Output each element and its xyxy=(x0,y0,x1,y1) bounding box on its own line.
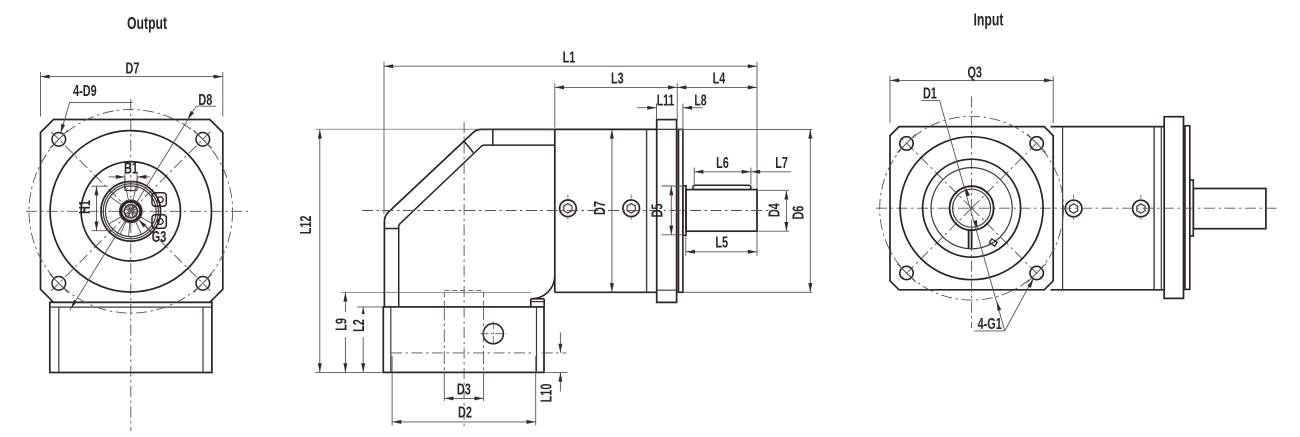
svg-text:D1: D1 xyxy=(923,85,937,103)
svg-text:D6: D6 xyxy=(789,205,807,219)
svg-text:D8: D8 xyxy=(198,91,212,109)
svg-text:D4: D4 xyxy=(765,203,783,217)
svg-text:L9: L9 xyxy=(332,318,350,331)
svg-text:D2: D2 xyxy=(458,404,472,422)
svg-text:L6: L6 xyxy=(716,154,729,172)
svg-text:4-G1: 4-G1 xyxy=(978,315,1002,333)
svg-text:L12: L12 xyxy=(297,215,315,234)
svg-text:D5: D5 xyxy=(648,203,666,217)
svg-text:D3: D3 xyxy=(457,380,471,398)
svg-text:L1: L1 xyxy=(563,48,576,66)
svg-text:Q3: Q3 xyxy=(967,64,982,82)
svg-text:L8: L8 xyxy=(694,91,706,109)
svg-text:L4: L4 xyxy=(713,70,726,88)
svg-text:L10: L10 xyxy=(537,383,555,402)
svg-text:L11: L11 xyxy=(657,91,675,109)
svg-text:H1: H1 xyxy=(76,200,94,214)
svg-text:D7: D7 xyxy=(591,201,609,215)
svg-text:4-D9: 4-D9 xyxy=(73,82,97,100)
svg-text:L2: L2 xyxy=(350,319,368,332)
svg-text:B1: B1 xyxy=(124,159,138,177)
svg-text:L5: L5 xyxy=(715,234,728,252)
svg-text:L7: L7 xyxy=(775,154,788,172)
svg-text:Output: Output xyxy=(127,14,167,34)
svg-text:D7: D7 xyxy=(126,59,140,77)
svg-text:G3: G3 xyxy=(152,228,167,246)
svg-text:Input: Input xyxy=(974,10,1004,30)
svg-text:L3: L3 xyxy=(611,70,624,88)
